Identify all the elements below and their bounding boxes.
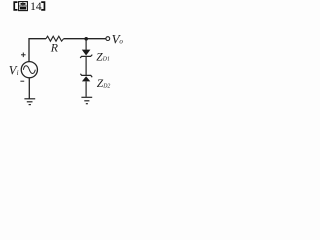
svg-text:D1: D1 xyxy=(102,57,110,63)
zener diode ZD2 xyxy=(80,74,92,82)
svg-text:14: 14 xyxy=(30,1,42,13)
caption figure label 【圖 14】 xyxy=(13,1,45,13)
zener diode ZD1 xyxy=(80,50,92,58)
sine wave xyxy=(23,66,35,74)
wire xyxy=(64,38,106,40)
wire xyxy=(85,81,87,96)
plus sign xyxy=(21,53,26,58)
label Vi xyxy=(9,63,19,77)
wire xyxy=(85,39,87,50)
ground right xyxy=(81,97,92,103)
minus sign xyxy=(20,80,24,82)
wire xyxy=(28,78,30,99)
ground left xyxy=(24,99,35,105)
label ZD1 xyxy=(96,51,110,63)
label Vo xyxy=(112,31,124,46)
label ZD2 xyxy=(97,78,111,90)
wire xyxy=(85,56,87,75)
wire top rail xyxy=(29,39,46,62)
svg-text:R: R xyxy=(50,41,59,55)
svg-text:D2: D2 xyxy=(102,83,110,89)
resistor R xyxy=(46,36,64,41)
terminal Vo circle xyxy=(106,37,110,41)
source Vi circle xyxy=(21,62,37,78)
svg-text:o: o xyxy=(119,38,123,46)
node junction dot xyxy=(84,37,88,41)
svg-text:i: i xyxy=(17,69,19,77)
